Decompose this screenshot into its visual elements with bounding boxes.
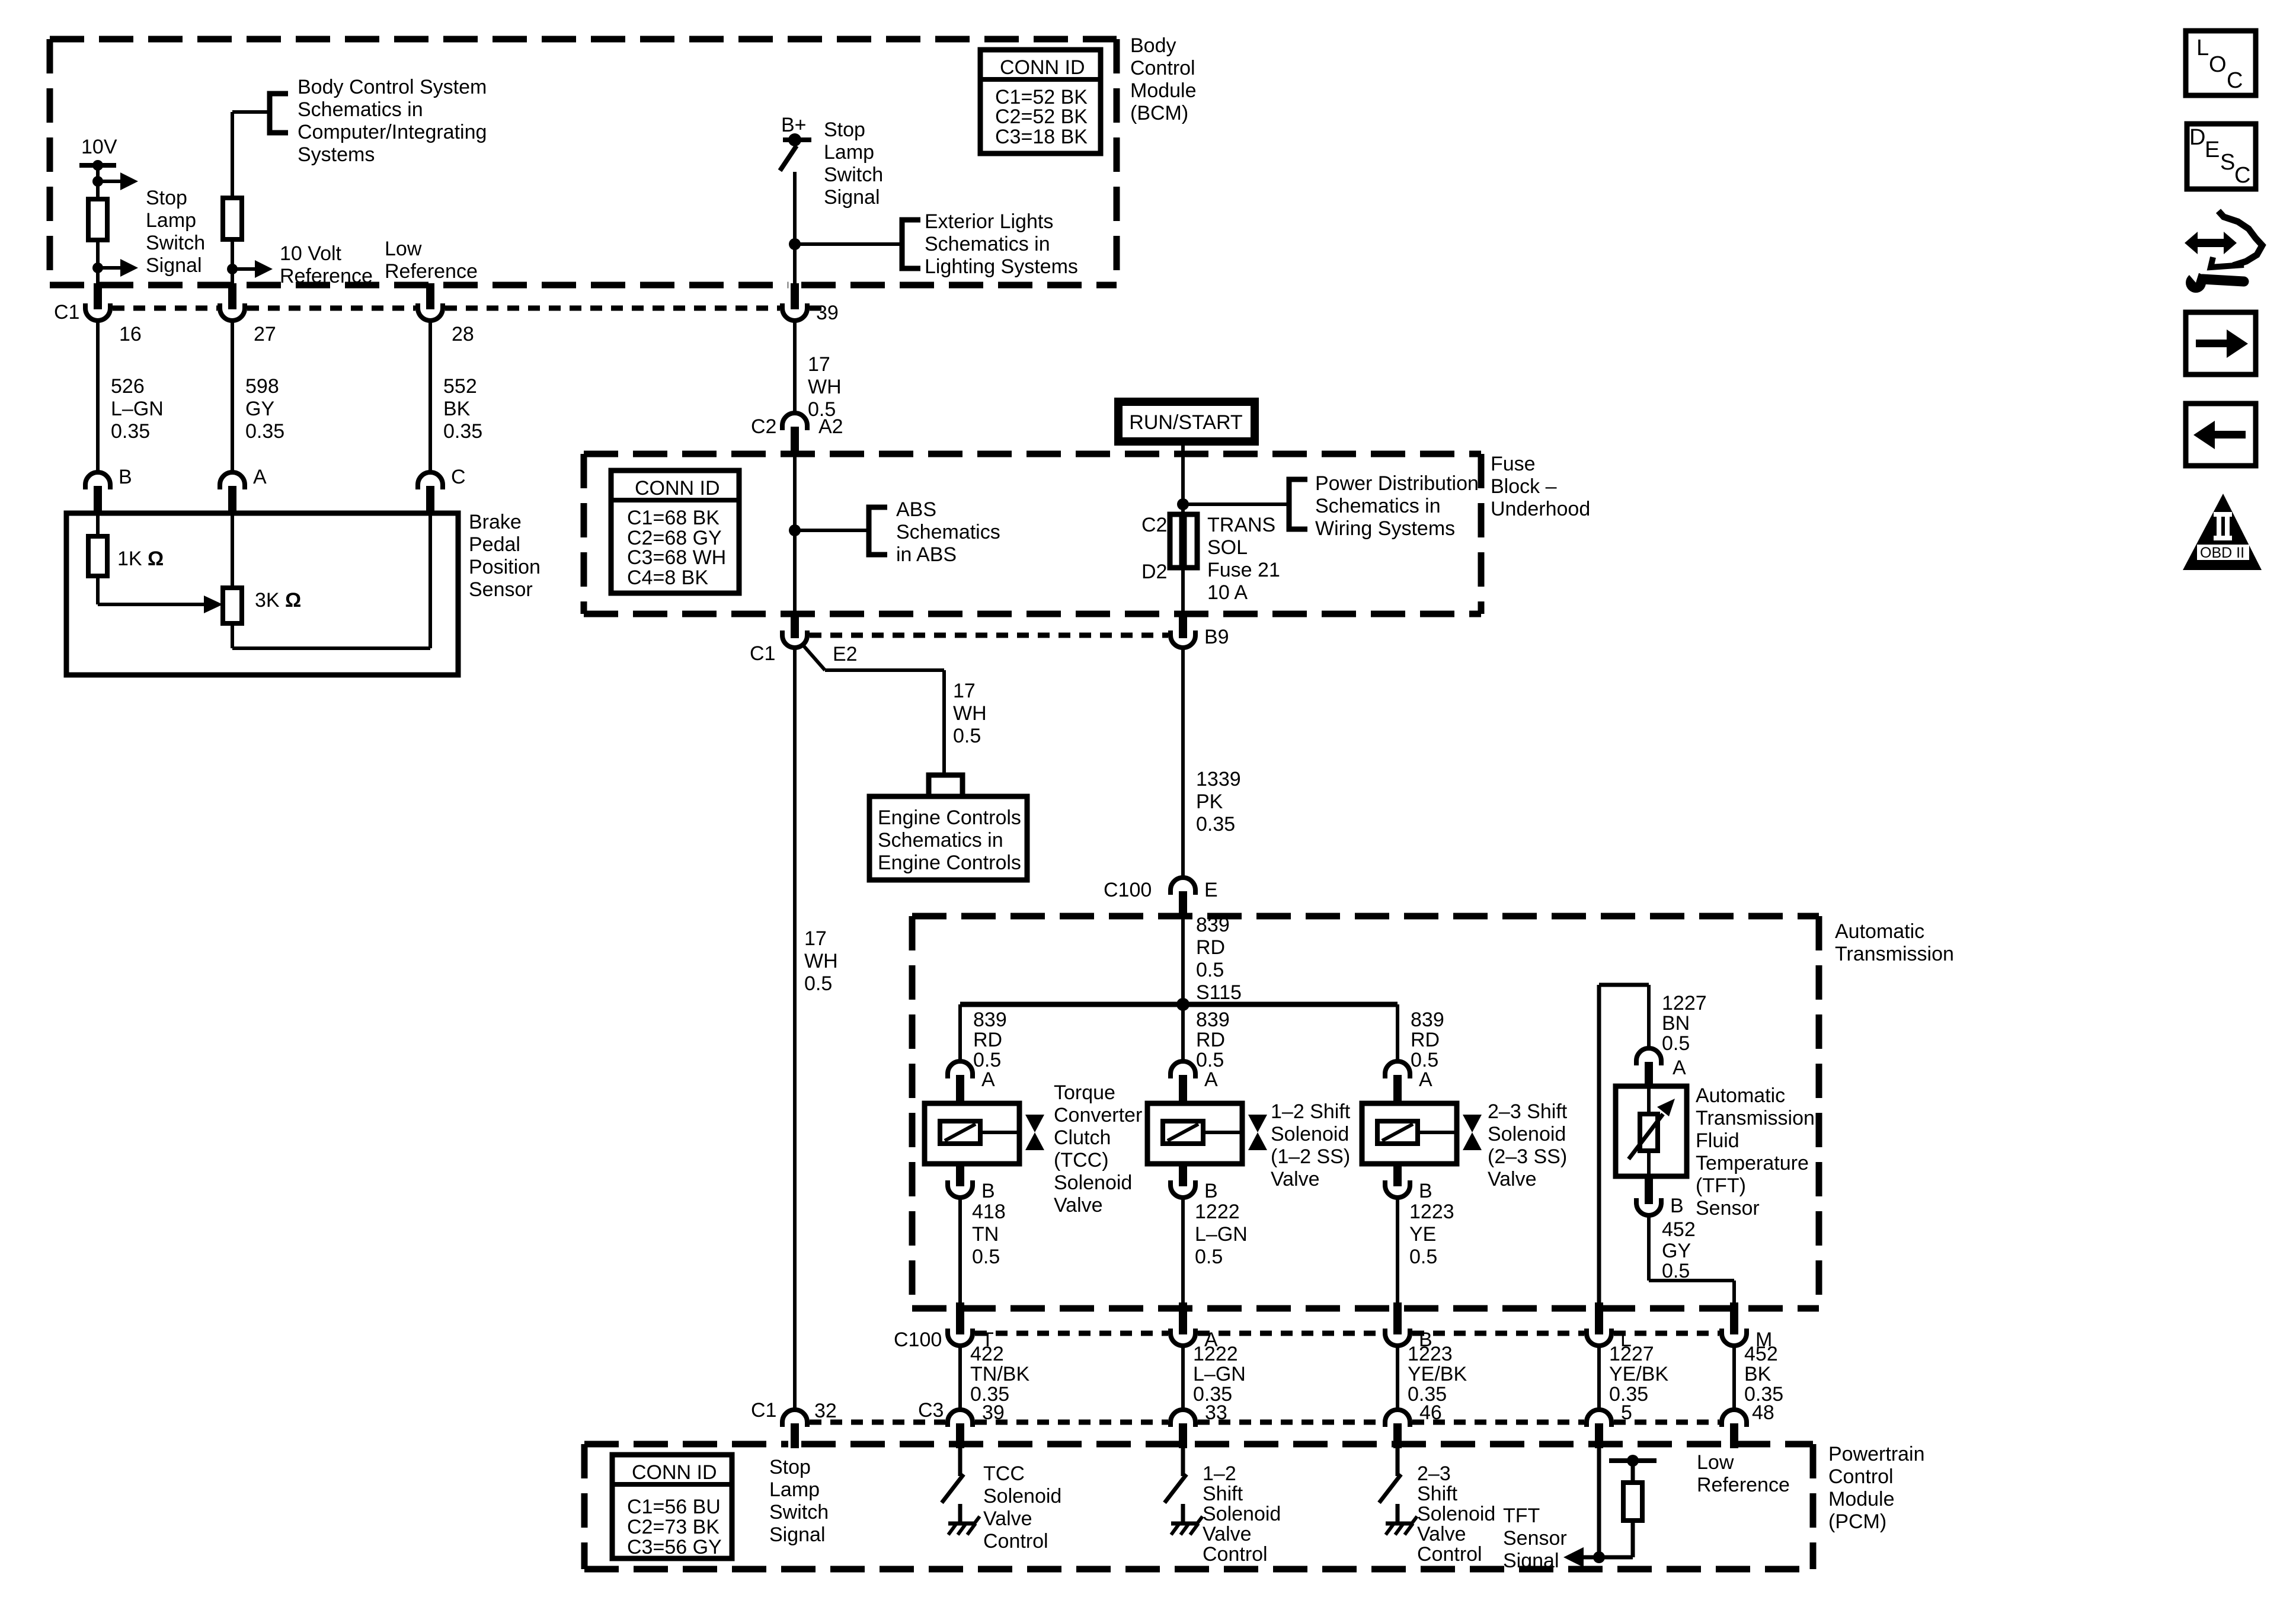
svg-text:Control: Control [983, 1530, 1048, 1553]
svg-text:452: 452 [1662, 1218, 1696, 1241]
svg-text:0.5: 0.5 [972, 1246, 1000, 1268]
svg-text:0.5: 0.5 [953, 725, 981, 747]
bracket reference to power distribution [1289, 479, 1307, 529]
svg-text:Valve: Valve [1488, 1168, 1537, 1190]
svg-text:C1: C1 [750, 642, 775, 665]
svg-text:OBD II: OBD II [2200, 545, 2244, 561]
switch stop lamp (B+ feed) [780, 114, 811, 171]
svg-text:Valve: Valve [1417, 1523, 1466, 1545]
svg-text:1–2 Shift: 1–2 Shift [1271, 1100, 1351, 1123]
wire [231, 239, 234, 285]
resistor (BCM pull-up on 10 volt reference) [223, 198, 242, 239]
svg-text:Signal: Signal [769, 1523, 826, 1546]
svg-text:TCC: TCC [983, 1462, 1025, 1485]
svg-text:839: 839 [973, 1009, 1007, 1031]
svg-text:YE/BK: YE/BK [1609, 1363, 1668, 1385]
svg-text:C1: C1 [751, 1399, 776, 1422]
icon forward arrow box [2186, 312, 2256, 375]
svg-text:1223: 1223 [1408, 1343, 1453, 1365]
connector row C100 dotted [894, 1329, 1719, 1351]
svg-text:Reference: Reference [385, 260, 478, 283]
icon back arrow box [2186, 404, 2256, 466]
svg-text:Stop: Stop [824, 119, 865, 141]
svg-text:0.5: 0.5 [1196, 959, 1224, 981]
svg-text:422: 422 [970, 1343, 1004, 1365]
svg-text:Sensor: Sensor [469, 578, 533, 601]
svg-text:0.35: 0.35 [245, 420, 284, 443]
svg-text:Shift: Shift [1203, 1483, 1243, 1505]
svg-text:Schematics in: Schematics in [925, 233, 1050, 255]
svg-text:Low: Low [385, 238, 422, 260]
svg-text:C2: C2 [751, 415, 776, 438]
svg-text:C3=56 GY: C3=56 GY [627, 1536, 722, 1558]
svg-text:1339: 1339 [1196, 768, 1241, 790]
svg-text:Module: Module [1130, 79, 1197, 102]
label Fuse Block - Underhood [1491, 453, 1590, 520]
svg-text:B: B [1670, 1195, 1684, 1217]
label Powertrain Control Module (PCM) [1828, 1443, 1925, 1533]
svg-text:28: 28 [452, 323, 474, 345]
svg-text:A: A [1673, 1057, 1686, 1079]
icon OBD II triangle [2183, 494, 2262, 570]
connector C100 pin M [1722, 1302, 1772, 1351]
svg-text:Signal: Signal [146, 254, 202, 277]
wire TFT sensor signal inside PCM [1563, 1448, 1633, 1567]
bracket into engine controls box [929, 775, 962, 796]
svg-text:BK: BK [1744, 1363, 1771, 1385]
connector pin 39 [782, 283, 839, 324]
svg-text:10 A: 10 A [1207, 581, 1248, 604]
wire 598 GY 0.35 [232, 321, 284, 472]
svg-text:BK: BK [443, 398, 471, 420]
svg-text:Solenoid: Solenoid [983, 1485, 1061, 1507]
wire E2 branch to engine controls [804, 646, 987, 776]
svg-text:Module: Module [1828, 1488, 1895, 1510]
svg-text:RD: RD [1411, 1029, 1440, 1051]
fuse TRANS SOL Fuse 21 10 A [1141, 514, 1280, 604]
svg-text:10V: 10V [81, 136, 117, 158]
connector PCM pin 48 [1722, 1410, 1747, 1448]
svg-text:L: L [2196, 36, 2209, 60]
svg-text:Engine Controls: Engine Controls [878, 852, 1021, 874]
svg-text:C: C [2234, 163, 2250, 188]
svg-text:Temperature: Temperature [1696, 1152, 1809, 1174]
engine controls reference box [869, 796, 1027, 880]
svg-text:1223: 1223 [1409, 1201, 1454, 1223]
svg-text:2–3: 2–3 [1417, 1462, 1451, 1485]
svg-text:Sensor: Sensor [1696, 1197, 1760, 1219]
svg-text:E: E [1204, 879, 1218, 901]
label Automatic Transmission [1835, 920, 1954, 965]
svg-text:PK: PK [1196, 790, 1223, 813]
wire 1223 YE 0.5 [1398, 1198, 1454, 1304]
connector PCM pin 5 [1587, 1410, 1611, 1448]
svg-text:C1=68 BK: C1=68 BK [627, 507, 720, 529]
svg-text:418: 418 [972, 1201, 1006, 1223]
svg-text:C3: C3 [918, 1399, 944, 1422]
svg-text:17: 17 [953, 680, 976, 702]
connector pin A (1-2 solenoid) [1171, 1061, 1218, 1103]
label Stop Lamp Switch Signal (B+ switch) [824, 119, 883, 209]
svg-text:17: 17 [808, 353, 830, 376]
svg-text:0.5: 0.5 [804, 972, 832, 995]
svg-text:Transmission: Transmission [1835, 943, 1954, 965]
connector C100 pin A [1171, 1302, 1218, 1351]
node junction with arrow (signal to pin 16) [92, 259, 138, 277]
connector C1/E2 [750, 612, 858, 665]
switch TCC solenoid valve control driver [942, 1448, 964, 1503]
node 10V rail [79, 136, 117, 171]
ground (2-3 driver) [1386, 1504, 1417, 1535]
wire RUN/START feed to fuse [1181, 445, 1185, 514]
svg-text:BN: BN [1662, 1012, 1690, 1035]
svg-text:B: B [1419, 1180, 1432, 1202]
svg-text:39: 39 [816, 302, 839, 324]
wire stop lamp switch signal (BCM internal, wire 16 upper) [96, 165, 100, 199]
svg-text:(BCM): (BCM) [1130, 102, 1188, 124]
svg-text:1222: 1222 [1195, 1201, 1240, 1223]
svg-text:C1=56 BU: C1=56 BU [627, 1496, 721, 1518]
svg-text:Lamp: Lamp [769, 1478, 820, 1501]
svg-text:E: E [2205, 137, 2220, 162]
bracket reference to Body Control System Schematics [270, 94, 288, 133]
svg-text:Automatic: Automatic [1835, 920, 1924, 943]
svg-text:0.35: 0.35 [1196, 813, 1235, 836]
svg-text:in ABS: in ABS [896, 543, 957, 566]
svg-text:WH: WH [804, 950, 838, 972]
svg-text:Automatic: Automatic [1696, 1084, 1785, 1107]
svg-text:Schematics in: Schematics in [1315, 495, 1441, 517]
ground (TCC driver) [948, 1504, 980, 1535]
svg-text:Control: Control [1130, 57, 1195, 79]
connector PCM C1 pin 32 [751, 1399, 837, 1448]
svg-text:RUN/START: RUN/START [1129, 411, 1242, 434]
svg-text:RD: RD [1196, 1029, 1225, 1051]
svg-text:SOL: SOL [1207, 536, 1248, 559]
connector pin A (2-3 solenoid) [1385, 1061, 1432, 1103]
svg-text:Power Distribution: Power Distribution [1315, 472, 1479, 495]
node junction to power distribution [1177, 498, 1289, 510]
wire 1227 YE/BK 0.35 pin 5 [1599, 1343, 1668, 1424]
label TFT Sensor Signal [1503, 1505, 1567, 1572]
node S115 splice [960, 998, 1398, 1011]
connector C100 pin T [948, 1302, 994, 1351]
svg-text:Fluid: Fluid [1696, 1129, 1739, 1152]
svg-text:TFT: TFT [1503, 1505, 1540, 1527]
svg-text:839: 839 [1196, 1009, 1230, 1031]
connector pin 16 [85, 283, 142, 345]
svg-text:Switch: Switch [769, 1501, 829, 1523]
wire 839 RD 0.5 S115 [1183, 914, 1242, 1004]
svg-text:C1: C1 [54, 301, 79, 324]
svg-text:D2: D2 [1141, 561, 1167, 583]
svg-text:TN/BK: TN/BK [970, 1363, 1029, 1385]
brake pedal position sensor box [66, 513, 458, 675]
svg-text:452: 452 [1744, 1343, 1778, 1365]
wire 10 volt reference (BCM internal, wire 27 upper) [232, 112, 270, 198]
wire 422 TN/BK 0.35 pin 39 [960, 1343, 1029, 1424]
resistor (BCM pull-up on stop lamp signal) [88, 199, 107, 240]
svg-text:Switch: Switch [824, 164, 883, 186]
label Body Control Module (BCM) [1130, 34, 1197, 124]
wire 418 TN 0.5 [960, 1198, 1006, 1304]
connector row E2/B9 dotted [810, 633, 1168, 638]
connector C100/E [1104, 878, 1218, 915]
svg-text:Fuse 21: Fuse 21 [1207, 559, 1280, 581]
svg-text:RD: RD [973, 1029, 1002, 1051]
svg-text:0.35: 0.35 [443, 420, 482, 443]
connector pin 27 [220, 283, 276, 345]
svg-text:O: O [2209, 52, 2227, 77]
wire 1227 loop (TFT feed) [1599, 985, 1707, 1304]
svg-text:10 Volt: 10 Volt [280, 242, 342, 265]
label Power Distribution Schematics [1315, 472, 1479, 540]
svg-text:526: 526 [111, 375, 145, 398]
connector C100 pin B [1385, 1302, 1432, 1351]
svg-text:WH: WH [808, 376, 842, 398]
svg-text:C: C [2227, 68, 2243, 93]
svg-text:C2=73 BK: C2=73 BK [627, 1516, 720, 1538]
svg-text:Lighting Systems: Lighting Systems [925, 255, 1078, 278]
wire 1223 YE/BK 0.35 pin 46 [1398, 1343, 1467, 1424]
connector pin B (TFT sensor) [1636, 1176, 1684, 1217]
BCM dashed box (Body Control Module outline) [50, 39, 1117, 285]
node junction with arrow (10 volt reference) [227, 260, 273, 278]
svg-text:3K Ω: 3K Ω [255, 589, 301, 612]
CONN ID table (PCM) [612, 1455, 732, 1558]
solenoid valve 1-2 shift [1147, 1103, 1267, 1164]
bracket reference to Exterior Lights Schematics [902, 220, 920, 268]
svg-text:32: 32 [814, 1400, 837, 1422]
svg-text:Valve: Valve [983, 1507, 1032, 1530]
svg-text:C4=8 BK: C4=8 BK [627, 566, 708, 589]
svg-text:B: B [981, 1180, 995, 1202]
svg-text:B: B [119, 466, 132, 488]
resistor 1K [88, 513, 164, 576]
svg-text:Clutch: Clutch [1054, 1126, 1111, 1149]
svg-text:Powertrain: Powertrain [1828, 1443, 1925, 1465]
svg-text:YE/BK: YE/BK [1408, 1363, 1467, 1385]
svg-text:GY: GY [245, 398, 274, 420]
svg-text:L–GN: L–GN [111, 398, 164, 420]
label Stop Lamp Switch Signal (left) [146, 187, 205, 277]
svg-text:Shift: Shift [1417, 1483, 1458, 1505]
svg-text:0.5: 0.5 [1662, 1260, 1690, 1282]
PCM dashed box [584, 1444, 1813, 1569]
wire wiper arrow into 3K [98, 576, 223, 613]
CONN ID table (fuse block) [611, 470, 739, 593]
svg-text:(2–3 SS): (2–3 SS) [1488, 1145, 1567, 1168]
svg-text:2–3 Shift: 2–3 Shift [1488, 1100, 1568, 1123]
svg-text:Stop: Stop [146, 187, 187, 209]
connector PCM pin 33 [1171, 1410, 1195, 1448]
svg-text:L–GN: L–GN [1193, 1363, 1246, 1385]
svg-text:0.5: 0.5 [1409, 1246, 1437, 1268]
svg-text:(TFT): (TFT) [1696, 1174, 1746, 1197]
svg-text:L–GN: L–GN [1195, 1223, 1248, 1246]
svg-text:1222: 1222 [1193, 1343, 1238, 1365]
svg-text:Pedal: Pedal [469, 533, 520, 556]
icon LOC box [2186, 31, 2256, 95]
svg-text:Body: Body [1130, 34, 1176, 57]
svg-text:Solenoid: Solenoid [1054, 1172, 1132, 1194]
label Torque Converter Clutch (TCC) Solenoid Valve [1054, 1081, 1142, 1217]
svg-text:CONN ID: CONN ID [1000, 56, 1085, 79]
TFT sensor (thermistor) [1616, 1086, 1687, 1176]
svg-text:17: 17 [804, 927, 827, 950]
wire 1222 L-GN 0.5 [1183, 1198, 1248, 1304]
svg-text:Signal: Signal [1503, 1550, 1559, 1572]
svg-text:Reference: Reference [1697, 1474, 1790, 1496]
svg-text:C3=68 WH: C3=68 WH [627, 546, 726, 569]
svg-text:S115: S115 [1196, 981, 1242, 1004]
fuse block dashed box [584, 454, 1481, 614]
label ABS Schematics in ABS [896, 498, 1000, 566]
svg-text:16: 16 [119, 323, 142, 345]
connector pin A (TCC solenoid) [948, 1061, 995, 1103]
icon vehicle/wrench (repair info) [2185, 211, 2262, 293]
svg-text:C2: C2 [1141, 514, 1167, 536]
wire stop lamp switch signal down to pin 39 [793, 172, 797, 285]
svg-text:B: B [1204, 1180, 1218, 1202]
connector row PCM dotted [810, 1420, 1719, 1425]
svg-text:TN: TN [972, 1223, 999, 1246]
wire 452 BK 0.35 pin 48 [1734, 1343, 1783, 1424]
svg-text:A: A [1419, 1068, 1432, 1091]
svg-text:A2: A2 [818, 415, 843, 438]
svg-text:1K Ω: 1K Ω [117, 548, 164, 570]
connector pin 28 [418, 283, 474, 345]
svg-text:C: C [451, 466, 466, 488]
svg-text:Schematics in: Schematics in [878, 829, 1003, 852]
connector row C1 (BCM) dotted [54, 301, 825, 324]
connector B9 [1171, 612, 1229, 648]
label Exterior Lights Schematics [925, 210, 1078, 278]
svg-text:Sensor: Sensor [1503, 1527, 1567, 1550]
svg-text:Wiring Systems: Wiring Systems [1315, 517, 1455, 540]
svg-text:1–2: 1–2 [1203, 1462, 1236, 1485]
connector pin B (brake pedal position sensor) [85, 466, 132, 514]
wire 1339 PK 0.35 [1183, 648, 1241, 878]
wire sensor internal return to pin C [232, 513, 430, 648]
wire A2 to E2 inside fuse block [793, 454, 797, 614]
svg-text:Engine Controls: Engine Controls [878, 806, 1021, 829]
label Body Control System Schematics [298, 76, 487, 166]
label TCC Solenoid Valve Control [983, 1462, 1061, 1553]
svg-text:0.35: 0.35 [111, 420, 150, 443]
svg-text:GY: GY [1662, 1240, 1691, 1262]
bracket reference to ABS schematics [869, 507, 887, 555]
CONN ID table (BCM) [980, 50, 1101, 153]
svg-text:Schematics: Schematics [896, 521, 1000, 543]
svg-text:RD: RD [1196, 936, 1225, 959]
svg-text:Position: Position [469, 556, 541, 578]
svg-text:Control: Control [1203, 1543, 1268, 1566]
svg-text:Fuse: Fuse [1491, 453, 1536, 475]
label 2-3 Shift Solenoid Valve Control [1417, 1462, 1495, 1566]
switch 1-2 shift solenoid valve control driver [1165, 1448, 1187, 1503]
svg-text:Solenoid: Solenoid [1417, 1503, 1495, 1525]
label Low Reference [385, 238, 478, 283]
svg-text:CONN ID: CONN ID [632, 1461, 717, 1484]
svg-text:E2: E2 [833, 643, 858, 665]
label 2-3 Shift Solenoid (2-3 SS) Valve [1488, 1100, 1568, 1190]
label Low Reference [1697, 1451, 1790, 1496]
svg-text:Solenoid: Solenoid [1271, 1123, 1349, 1145]
svg-text:C100: C100 [894, 1329, 942, 1351]
RUN/START ignition box [1118, 402, 1255, 441]
svg-text:(1–2 SS): (1–2 SS) [1271, 1145, 1350, 1168]
wire 1222 L-GN 0.35 pin 33 [1183, 1343, 1246, 1424]
svg-text:Converter: Converter [1054, 1104, 1142, 1126]
svg-text:Control: Control [1417, 1543, 1482, 1566]
label Stop Lamp Switch Signal (PCM input) [769, 1456, 829, 1546]
resistor pull-up to low reference inside PCM [1609, 1455, 1657, 1557]
wire 552 BK 0.35 [430, 321, 482, 472]
wire 452 GY 0.5 [1649, 1215, 1734, 1304]
switch 2-3 shift solenoid valve control driver [1379, 1448, 1401, 1503]
connector pin A (TFT sensor) [1636, 1048, 1686, 1087]
svg-text:C2=52 BK: C2=52 BK [995, 105, 1088, 128]
wire 526 L-GN 0.35 [98, 321, 164, 472]
svg-text:Low: Low [1697, 1451, 1734, 1474]
svg-text:S: S [2220, 150, 2235, 175]
solenoid valve 2-3 shift [1362, 1103, 1482, 1164]
automatic transmission dashed box [912, 916, 1819, 1308]
svg-text:(TCC): (TCC) [1054, 1149, 1109, 1172]
svg-text:839: 839 [1411, 1009, 1444, 1031]
svg-text:TRANS: TRANS [1207, 514, 1275, 536]
svg-text:27: 27 [254, 323, 276, 345]
svg-text:Transmission: Transmission [1696, 1107, 1815, 1129]
connector pin C (brake pedal position sensor) [418, 466, 466, 514]
node junction to ABS [789, 524, 869, 536]
svg-text:Stop: Stop [769, 1456, 811, 1478]
connector PCM pin 46 [1385, 1410, 1410, 1448]
svg-text:Control: Control [1828, 1465, 1894, 1488]
svg-text:Valve: Valve [1271, 1168, 1320, 1190]
node junction to exterior lights [789, 238, 902, 250]
svg-text:D: D [2189, 125, 2205, 150]
wire 839 RD 0.5 (1-2 branch) [1183, 1004, 1230, 1071]
label 10 Volt Reference [280, 242, 373, 287]
ground (1-2 driver) [1171, 1504, 1203, 1535]
svg-text:Schematics in: Schematics in [298, 98, 423, 121]
connector pin B (1-2 solenoid) [1171, 1164, 1218, 1202]
svg-text:Reference: Reference [280, 265, 373, 287]
wire 839 RD 0.5 (2-3 branch) [1398, 1004, 1444, 1071]
wire fuse to B9 [1181, 568, 1185, 614]
svg-text:Body Control System: Body Control System [298, 76, 487, 98]
connector C2/A2 (fuse block) [751, 413, 843, 456]
icon DESC box [2187, 124, 2256, 189]
svg-text:C100: C100 [1104, 879, 1152, 901]
svg-text:Computer/Integrating: Computer/Integrating [298, 121, 487, 143]
svg-text:Valve: Valve [1054, 1194, 1103, 1217]
wire 17 WH 0.5 long run to PCM [795, 648, 838, 1410]
svg-text:598: 598 [245, 375, 279, 398]
svg-text:(PCM): (PCM) [1828, 1510, 1886, 1533]
svg-text:48: 48 [1752, 1401, 1774, 1424]
wire 839 RD 0.5 (TCC branch) [960, 1004, 1007, 1071]
svg-text:Exterior Lights: Exterior Lights [925, 210, 1053, 233]
solenoid valve TCC [925, 1103, 1044, 1164]
svg-text:WH: WH [953, 702, 987, 725]
svg-text:Valve: Valve [1203, 1523, 1252, 1545]
resistor 3K (potentiometer) [223, 513, 301, 623]
svg-text:CONN ID: CONN ID [635, 477, 720, 500]
connector pin A (brake pedal position sensor) [220, 466, 267, 514]
